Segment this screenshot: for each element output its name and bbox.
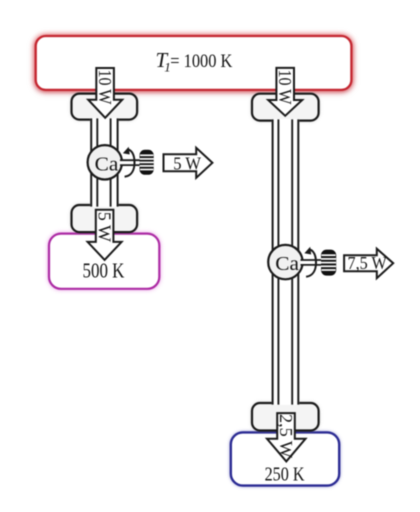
svg-text:= 1000 K: = 1000 K — [170, 51, 232, 72]
svg-text:7,5 W: 7,5 W — [348, 253, 387, 273]
right engine: rotation arrow — [304, 247, 316, 277]
right engine: heat rejection arrow 2,5 W — [267, 413, 306, 461]
left engine: output shaft — [120, 160, 141, 165]
cold reservoir box 250 K — [231, 432, 339, 485]
right engine: bottom block — [252, 403, 319, 431]
svg-text:10 W: 10 W — [95, 70, 115, 105]
label T1 = 1000 K — [156, 48, 233, 74]
right engine: work arrow 7,5 W — [344, 249, 393, 279]
right engine: top block — [252, 94, 319, 121]
left engine: heat rejection arrow 5 W — [88, 210, 122, 260]
left engine: bottom block — [72, 205, 138, 232]
svg-text:5 W: 5 W — [95, 212, 115, 242]
right engine: heat input arrow 10 W — [268, 68, 302, 116]
svg-text:Ca: Ca — [95, 153, 119, 175]
left engine: Carnot circle Ca — [88, 145, 122, 179]
svg-text:Ca: Ca — [275, 253, 299, 275]
right engine: output shaft — [301, 260, 323, 265]
right engine: Carnot circle Ca — [268, 245, 302, 279]
left engine: knurled knob — [140, 151, 154, 174]
right engine: inner piston rod — [278, 119, 292, 404]
left engine: heat input arrow 10 W — [88, 68, 122, 118]
svg-text:10 W: 10 W — [275, 70, 295, 105]
svg-text:5 W: 5 W — [173, 154, 201, 174]
left engine: top block — [72, 94, 138, 120]
cold reservoir box 500 K — [49, 234, 159, 289]
right engine: knurled knob — [321, 250, 336, 274]
left engine: inner piston rod — [97, 118, 110, 206]
hot reservoir box T1 = 1000 K — [36, 36, 352, 90]
right engine: outer tube — [272, 119, 300, 405]
svg-text:500 K: 500 K — [83, 258, 125, 282]
svg-text:2,5 W: 2,5 W — [276, 414, 296, 458]
left engine: rotation arrow — [123, 147, 135, 177]
left engine: outer tube — [90, 118, 118, 207]
left engine: work arrow 5 W — [164, 148, 213, 178]
svg-text:250 K: 250 K — [265, 464, 305, 485]
